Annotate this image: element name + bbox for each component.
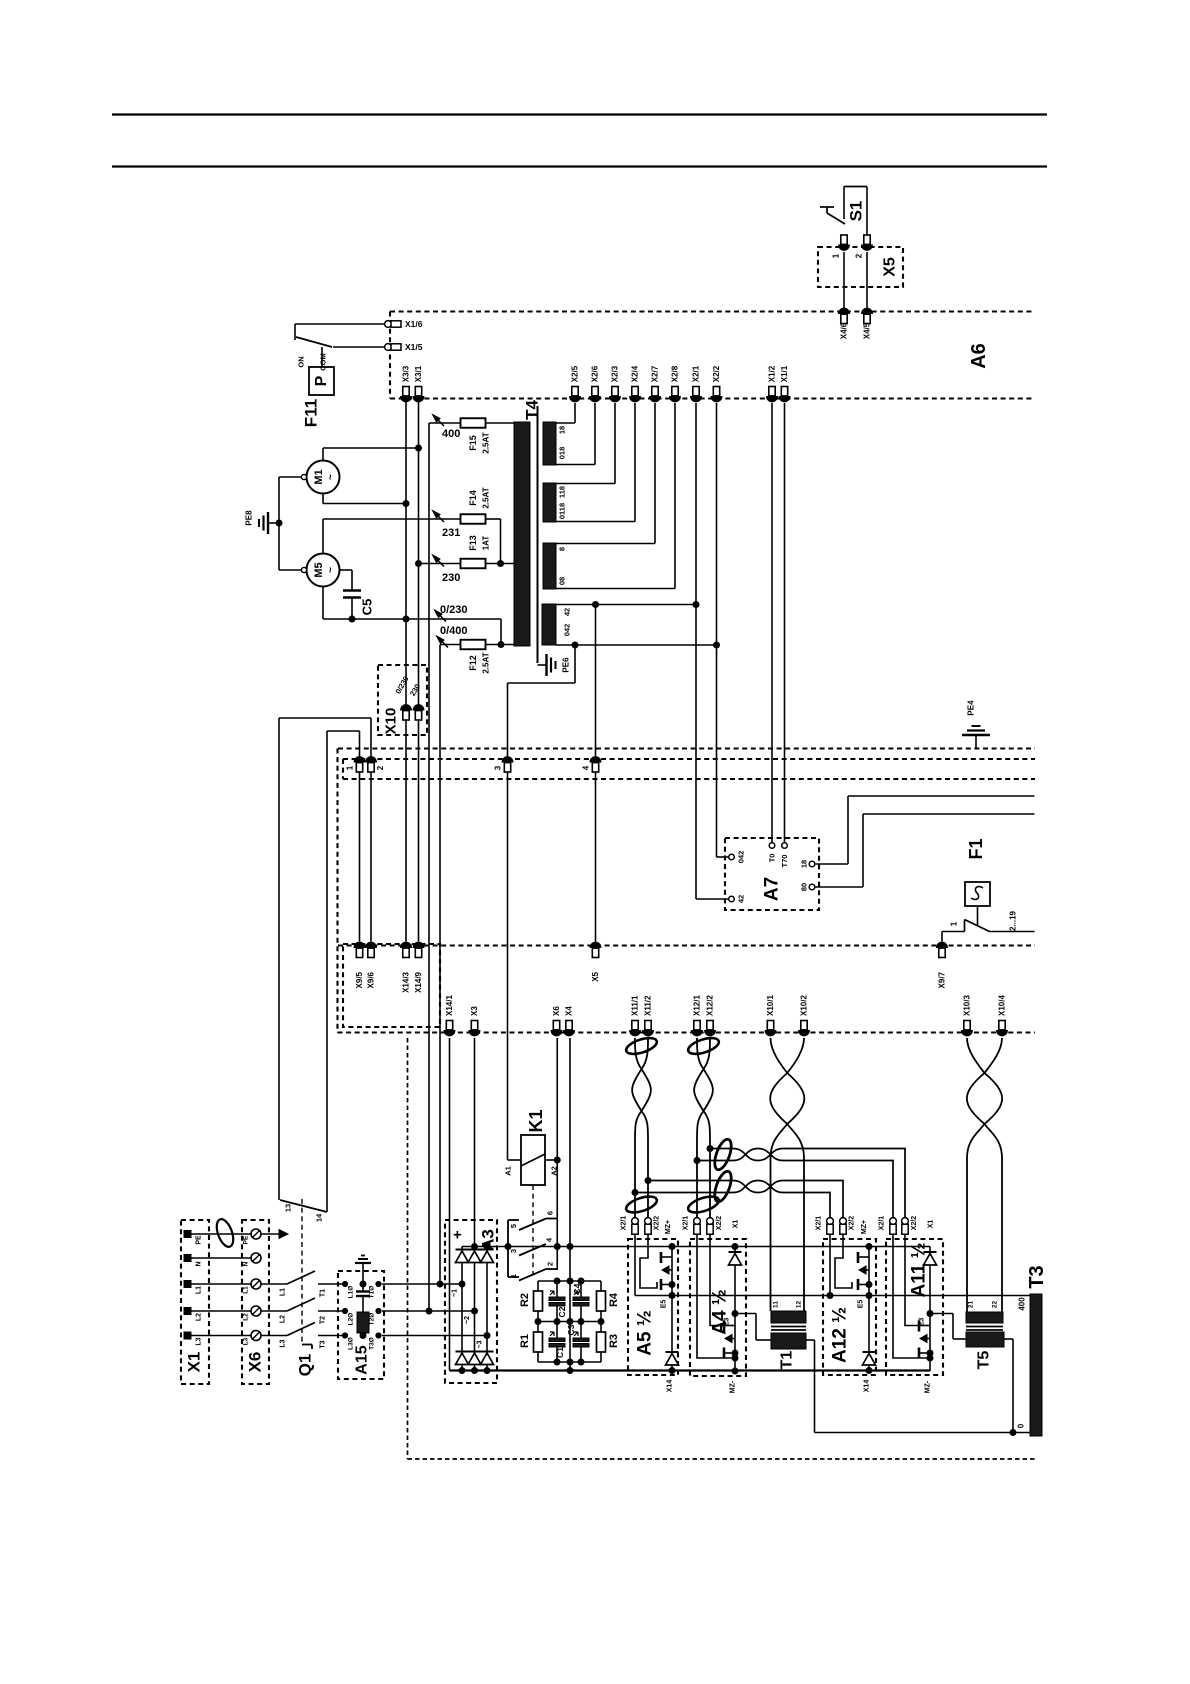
diode A5 bbox=[666, 1296, 679, 1371]
svg-text:2: 2 bbox=[546, 1262, 555, 1266]
wire 042 to pin3 bbox=[508, 645, 576, 759]
wire PE8 rail bbox=[278, 477, 280, 570]
resistor R3 bbox=[597, 1332, 621, 1362]
wire A11 gate lead 2 bbox=[905, 1234, 919, 1326]
module A15 box bbox=[338, 1271, 384, 1379]
terminal X10/4 bbox=[997, 995, 1008, 1036]
wire minus bus bbox=[450, 1369, 931, 1371]
pin A5 X2/1 bbox=[621, 1216, 639, 1235]
wire PE arrow bbox=[261, 1230, 288, 1239]
svg-text:R4: R4 bbox=[608, 1292, 620, 1307]
wire RC bottom bus bbox=[538, 1361, 601, 1363]
connector X6 box bbox=[242, 1220, 269, 1384]
rectifier A3 column ~1 bbox=[452, 1247, 469, 1371]
svg-text:80: 80 bbox=[800, 883, 809, 891]
wire X1/2 to A7 T0 bbox=[771, 403, 773, 843]
node X12 gate tap 2 bbox=[694, 1158, 700, 1164]
diode A4 bbox=[729, 1247, 742, 1314]
ground PE4 bbox=[962, 726, 990, 748]
svg-text:X14/9: X14/9 bbox=[414, 971, 423, 992]
svg-text:2.5AT: 2.5AT bbox=[482, 652, 491, 673]
node minus col3 bbox=[484, 1368, 490, 1374]
svg-text:X2/2: X2/2 bbox=[911, 1216, 918, 1231]
node X6 plus bus bbox=[554, 1244, 560, 1250]
switch F1 blade bbox=[965, 920, 990, 932]
capacitor C4 bbox=[572, 1281, 589, 1322]
svg-text:~2: ~2 bbox=[464, 1316, 471, 1324]
wire X4 drop bbox=[569, 1038, 571, 1281]
svg-text:X9/6: X9/6 bbox=[367, 971, 376, 988]
svg-text:X1/5: X1/5 bbox=[405, 342, 423, 352]
thyristor A12 bbox=[858, 1247, 872, 1296]
svg-text:F13: F13 bbox=[468, 535, 478, 551]
wire T5 out right bbox=[1004, 1339, 1013, 1433]
terminal X6 PE bbox=[243, 1229, 262, 1244]
svg-text:L1Ø: L1Ø bbox=[348, 1286, 355, 1299]
capacitor C2 bbox=[549, 1281, 567, 1322]
svg-text:S1: S1 bbox=[847, 201, 866, 222]
switch Q1 contact T3 bbox=[261, 1323, 345, 1349]
pin X10 1 bbox=[401, 705, 412, 720]
svg-text:X1: X1 bbox=[185, 1352, 204, 1373]
wire X1 L2 bbox=[191, 1310, 251, 1312]
capacitor C1 bbox=[549, 1322, 565, 1363]
svg-text:X14: X14 bbox=[864, 1380, 871, 1393]
node F13 X3/1 junction bbox=[416, 561, 422, 567]
node X3/3 0/230 junction bbox=[403, 616, 409, 622]
wire T1 T5 to T3 0 bbox=[815, 1432, 1031, 1434]
wire M1 left bbox=[279, 476, 302, 478]
terminal X1/5 bbox=[385, 342, 423, 352]
svg-text:400: 400 bbox=[1018, 1297, 1027, 1311]
svg-text:042: 042 bbox=[563, 624, 572, 637]
pin A12 X2/2 bbox=[840, 1216, 856, 1235]
node C5 junction bbox=[349, 616, 355, 622]
terminal X9/5 bbox=[354, 942, 365, 988]
switch Q1 contact T2 bbox=[261, 1298, 345, 1324]
node A4 E3 bbox=[732, 1311, 738, 1317]
wire A4 gate lead 2 bbox=[710, 1234, 724, 1326]
svg-text:A5 ½: A5 ½ bbox=[635, 1310, 656, 1355]
label F13 value bbox=[468, 535, 491, 551]
pin row contact 4 bbox=[582, 757, 601, 772]
svg-text:X6: X6 bbox=[552, 1006, 561, 1016]
wire pin4 to X5 bbox=[595, 772, 597, 942]
svg-text:F14: F14 bbox=[468, 490, 478, 506]
thyristor A5 bbox=[661, 1247, 675, 1296]
wire X3/1 rail upper bbox=[418, 401, 420, 707]
svg-text:T2: T2 bbox=[320, 1316, 327, 1324]
node RC top 570 bbox=[567, 1278, 573, 1284]
svg-text:F12: F12 bbox=[468, 655, 478, 671]
transformer T4 winding 118 bbox=[543, 483, 556, 522]
terminal X9/7 bbox=[937, 942, 948, 988]
svg-text:X3/1: X3/1 bbox=[414, 365, 423, 382]
wire RC mid bus bbox=[538, 1321, 601, 1323]
wire S1 to X4/6 bbox=[843, 252, 845, 309]
pin A7 42 bbox=[729, 895, 746, 903]
svg-text:L3: L3 bbox=[243, 1337, 250, 1345]
wire X1 N bbox=[191, 1257, 251, 1259]
svg-text:K1: K1 bbox=[526, 1109, 546, 1132]
pin A7 T0 bbox=[768, 843, 777, 863]
svg-text:X2/5: X2/5 bbox=[571, 365, 580, 382]
svg-text:X9/5: X9/5 bbox=[355, 971, 364, 988]
svg-text:T5: T5 bbox=[976, 1351, 993, 1370]
svg-text:X1/2: X1/2 bbox=[768, 365, 777, 382]
node X12 gate tap 1 bbox=[707, 1146, 713, 1152]
pin A12 X2/1 bbox=[816, 1216, 834, 1235]
node RC mid 557 bbox=[554, 1319, 560, 1325]
fuse F13 bbox=[419, 555, 515, 568]
wire 0/400 rail bbox=[440, 645, 461, 1285]
svg-text:A6: A6 bbox=[968, 343, 990, 369]
svg-text:PE4: PE4 bbox=[967, 700, 976, 716]
svg-text:A1: A1 bbox=[504, 1166, 513, 1176]
svg-text:A11 ½: A11 ½ bbox=[909, 1243, 930, 1298]
transformer T4 winding 18 bbox=[543, 422, 556, 465]
wire A4 gate lead 1 bbox=[697, 1234, 735, 1358]
svg-text:~: ~ bbox=[326, 567, 337, 573]
module A5 box bbox=[628, 1239, 678, 1375]
enclosure dashed boundary bbox=[408, 1038, 1037, 1459]
fuse F15 bbox=[429, 415, 514, 428]
thyristor A4 bbox=[724, 1314, 738, 1372]
terminal X6 bbox=[551, 1006, 562, 1036]
wire X6 drop bbox=[556, 1038, 558, 1270]
module A3 box bbox=[445, 1220, 497, 1383]
terminal X5 bbox=[590, 942, 601, 982]
wire A11 gate lead 1 bbox=[893, 1234, 930, 1358]
svg-text:X14/3: X14/3 bbox=[402, 971, 411, 992]
terminal X1/2 bbox=[767, 365, 778, 402]
svg-text:C2: C2 bbox=[557, 1306, 567, 1317]
svg-text:MZ-: MZ- bbox=[730, 1380, 737, 1393]
svg-text:T3: T3 bbox=[1026, 1265, 1048, 1288]
svg-text:T1: T1 bbox=[320, 1289, 327, 1297]
svg-text:F1: F1 bbox=[966, 838, 986, 859]
pin row contact 2 bbox=[366, 757, 385, 772]
connector row1 pin box bbox=[343, 944, 440, 1027]
svg-text:PE: PE bbox=[243, 1235, 250, 1244]
wire 0/230 drop bbox=[500, 619, 502, 645]
node A12 cathode bus bbox=[827, 1293, 833, 1299]
terminal X6 L3 bbox=[243, 1331, 262, 1346]
wire X2/1 to A7 42 bbox=[696, 403, 729, 899]
node 42 tap junction 2 bbox=[693, 602, 699, 608]
terminal X11/1 bbox=[630, 995, 641, 1036]
node M1 top junction bbox=[416, 445, 422, 451]
pin A4 X2/2 bbox=[707, 1216, 723, 1235]
terminal X10/3 bbox=[962, 995, 973, 1036]
pin A11 X2/2 bbox=[902, 1216, 918, 1235]
wire dashed row1 bbox=[338, 944, 1035, 946]
svg-text:08: 08 bbox=[558, 577, 567, 585]
svg-text:3: 3 bbox=[494, 765, 503, 770]
node 42 tap junction 1 bbox=[593, 602, 599, 608]
svg-text:2...19: 2...19 bbox=[1009, 910, 1018, 931]
switch S1 bbox=[820, 187, 867, 236]
wire X1 L3 bbox=[191, 1335, 251, 1337]
node A4 gate junction bbox=[732, 1355, 738, 1361]
svg-text:L1: L1 bbox=[280, 1288, 287, 1296]
node RC mid left bbox=[535, 1319, 541, 1325]
svg-text:X5: X5 bbox=[882, 257, 899, 277]
terminal S1 pin 2 bbox=[855, 235, 873, 258]
svg-text:C5: C5 bbox=[360, 599, 375, 616]
transformer T4 core bbox=[537, 406, 539, 663]
terminal X14/1 bbox=[444, 995, 455, 1036]
wire A5 cathode lead bbox=[634, 1234, 636, 1296]
node A5 minus bus bbox=[669, 1368, 675, 1374]
transformer T4 primary winding bbox=[514, 422, 530, 646]
terminal X1 L1 bbox=[184, 1281, 203, 1295]
node minus col2 bbox=[472, 1368, 478, 1374]
svg-text:T3Ø: T3Ø bbox=[369, 1337, 376, 1350]
svg-text:N: N bbox=[243, 1261, 250, 1266]
svg-text:E5: E5 bbox=[661, 1300, 668, 1309]
svg-text:0/400: 0/400 bbox=[440, 625, 468, 637]
svg-text:X2/2: X2/2 bbox=[849, 1216, 856, 1231]
svg-text:T70: T70 bbox=[780, 855, 789, 868]
node K1 A2 junction bbox=[554, 1157, 560, 1163]
terminal X3/3 bbox=[401, 365, 412, 402]
wire X2/4 to T4 bbox=[556, 403, 635, 522]
pin A15 1311 bbox=[342, 1308, 381, 1325]
svg-text:0: 0 bbox=[1017, 1423, 1026, 1428]
node RC minus bus bbox=[567, 1368, 573, 1374]
svg-text:X2/1: X2/1 bbox=[683, 1216, 690, 1231]
svg-text:PE: PE bbox=[196, 1235, 203, 1245]
node 0/230 F12 junction bbox=[498, 642, 504, 648]
connector X5 bbox=[818, 247, 903, 287]
wire X2/5 to T4 bbox=[556, 403, 575, 423]
node A4 anode bus bbox=[732, 1244, 738, 1250]
wire T1 out right bbox=[806, 1340, 815, 1433]
svg-text:21: 21 bbox=[968, 1301, 975, 1309]
wire RC center rail bbox=[569, 1281, 571, 1371]
svg-text:1: 1 bbox=[509, 1274, 518, 1278]
terminal X1 PE bbox=[184, 1231, 203, 1245]
node A12 minus bus bbox=[866, 1368, 872, 1374]
svg-text:X4/6: X4/6 bbox=[840, 322, 849, 339]
node A5 E5 bbox=[669, 1293, 675, 1299]
pin row contact 1 bbox=[346, 757, 365, 772]
node A12 E5 bbox=[866, 1293, 872, 1299]
svg-text:ON: ON bbox=[297, 356, 306, 367]
svg-text:X2/4: X2/4 bbox=[631, 365, 640, 382]
pin A4 X2/1 bbox=[683, 1216, 701, 1235]
terminal X10/2 bbox=[799, 995, 810, 1036]
wire T5 out left bbox=[930, 1314, 966, 1340]
inductor A15 bbox=[357, 1312, 369, 1333]
svg-text:L3Ø: L3Ø bbox=[348, 1337, 355, 1350]
terminal X1 L2 bbox=[184, 1308, 203, 1322]
terminal X9/6 bbox=[366, 942, 377, 988]
svg-text:X14: X14 bbox=[667, 1380, 674, 1393]
svg-text:X6: X6 bbox=[246, 1352, 265, 1373]
svg-text:~1: ~1 bbox=[452, 1289, 459, 1297]
wire Q1 aux 13 riser bbox=[279, 718, 371, 1200]
svg-text:231: 231 bbox=[442, 527, 460, 539]
pin A7 042 bbox=[729, 851, 746, 864]
pin A7 18 bbox=[800, 860, 815, 868]
wire dashed row2 bbox=[338, 1031, 1036, 1033]
switch Q1 aux blade bbox=[280, 1200, 327, 1212]
svg-text:6: 6 bbox=[546, 1211, 555, 1215]
svg-text:MZ+: MZ+ bbox=[861, 1220, 868, 1234]
wire M1 bottom to X3/3 bbox=[323, 494, 406, 504]
svg-text:2: 2 bbox=[376, 765, 385, 770]
terminal X6 L1 bbox=[243, 1279, 262, 1294]
connector X1 box bbox=[181, 1220, 209, 1384]
wire Q1 aux 14 riser bbox=[327, 731, 360, 1212]
wire dashed bus 1 bbox=[338, 747, 1035, 749]
svg-text:2: 2 bbox=[855, 253, 864, 258]
wire A4 E3 to T1 bbox=[735, 1314, 771, 1341]
terminal X14/3 bbox=[401, 942, 412, 993]
wire X1/5 to F11 COM bbox=[333, 346, 385, 348]
svg-text:X12/2: X12/2 bbox=[706, 995, 715, 1016]
node X11 gate tap 1 bbox=[645, 1178, 651, 1184]
twisted pair X10/1 X10/2 bbox=[771, 1038, 805, 1311]
twisted pair X10/3 X10/4 bbox=[967, 1038, 1002, 1312]
motor M1 bbox=[301, 461, 339, 494]
svg-text:8: 8 bbox=[558, 547, 567, 551]
wire pin3 to K1 A1 bbox=[507, 772, 509, 1160]
svg-text:PE6: PE6 bbox=[562, 657, 571, 673]
ground PE8 bbox=[259, 512, 279, 534]
wire header rule 2 bbox=[112, 165, 1047, 167]
svg-text:C3: C3 bbox=[566, 1324, 576, 1335]
svg-text:L2: L2 bbox=[243, 1313, 250, 1321]
enclosure dashed left edge bbox=[336, 749, 338, 1033]
resistor R2 bbox=[519, 1281, 543, 1332]
svg-text:F15: F15 bbox=[468, 435, 478, 451]
wire X3/1 rail lower bbox=[418, 720, 420, 942]
svg-text:4: 4 bbox=[582, 765, 591, 770]
svg-text:X9/7: X9/7 bbox=[938, 971, 947, 988]
wire X1 PE bbox=[191, 1233, 251, 1235]
pin A11 X2/1 bbox=[879, 1216, 897, 1235]
pin row contact 3 bbox=[494, 757, 513, 772]
wire A7 18 output bbox=[815, 796, 1035, 864]
svg-text:X10/1: X10/1 bbox=[766, 995, 775, 1016]
node A4 minus bus bbox=[732, 1368, 738, 1374]
svg-text:1: 1 bbox=[950, 921, 959, 926]
wire M5 bottom 0/230 bbox=[323, 587, 501, 620]
wire A15 to L3 bbox=[362, 1333, 364, 1336]
fuse F14 bbox=[323, 511, 501, 564]
ferrite ring PE bbox=[213, 1217, 236, 1249]
thermostat F1 bbox=[965, 882, 990, 925]
wire 400 rail bbox=[428, 423, 430, 1311]
svg-text:13: 13 bbox=[284, 1204, 293, 1212]
svg-text:T4: T4 bbox=[523, 400, 542, 420]
wire K1 A1 bbox=[508, 1159, 522, 1161]
capacitor C3 bbox=[566, 1322, 589, 1363]
terminal X11/2 bbox=[643, 995, 654, 1036]
node PE8 junction bbox=[276, 520, 282, 526]
svg-text:PE8: PE8 bbox=[245, 510, 254, 526]
node 042 tap junction 2 bbox=[714, 642, 720, 648]
wire M5 left bbox=[279, 569, 302, 571]
wire F1 output bbox=[990, 931, 1035, 933]
node RC top 557 bbox=[554, 1278, 560, 1284]
svg-text:A12 ½: A12 ½ bbox=[830, 1307, 851, 1363]
node A15 L1 junction bbox=[360, 1281, 366, 1287]
wire X1/6 to F11 ON bbox=[295, 324, 385, 340]
wire X2/7 to T4 bbox=[556, 403, 655, 544]
pin A15 1284 bbox=[342, 1281, 381, 1298]
module A11 box bbox=[886, 1239, 943, 1375]
ground PE6 bbox=[538, 654, 556, 676]
transformer T4 winding 42 bbox=[542, 604, 556, 645]
svg-text:12: 12 bbox=[796, 1301, 803, 1309]
svg-text:R2: R2 bbox=[519, 1293, 531, 1307]
svg-text:X2/1: X2/1 bbox=[692, 365, 701, 382]
svg-text:2.5AT: 2.5AT bbox=[482, 487, 491, 508]
svg-text:MZ-: MZ- bbox=[925, 1380, 932, 1393]
switch Q1 mechanism bbox=[302, 1199, 312, 1349]
svg-text:42: 42 bbox=[563, 608, 572, 616]
wire A7 80 output bbox=[815, 814, 1035, 887]
svg-text:R1: R1 bbox=[519, 1334, 531, 1348]
pressure switch F11 bbox=[309, 347, 334, 395]
node A12 anode bus bbox=[866, 1244, 872, 1250]
wire S1 to X4/5 bbox=[866, 252, 868, 309]
transformer T4 winding 8 bbox=[543, 543, 556, 589]
node T5 out junction bbox=[1010, 1430, 1016, 1436]
terminal X12/1 bbox=[692, 995, 703, 1036]
svg-text:230: 230 bbox=[442, 572, 460, 584]
svg-text:X4/5: X4/5 bbox=[863, 322, 872, 339]
module A12 box bbox=[823, 1239, 876, 1375]
svg-text:L1: L1 bbox=[243, 1286, 250, 1294]
connector pin row box bbox=[343, 759, 1035, 779]
wire M1 top to X3/1 bbox=[323, 448, 419, 461]
svg-text:X2/6: X2/6 bbox=[591, 365, 600, 382]
svg-text:X2/1: X2/1 bbox=[879, 1216, 886, 1231]
svg-text:L2Ø: L2Ø bbox=[348, 1313, 355, 1326]
resistor R1 bbox=[519, 1332, 543, 1362]
svg-text:+: + bbox=[453, 1227, 462, 1244]
svg-text:T3: T3 bbox=[320, 1340, 327, 1348]
node RC bottom 557 bbox=[554, 1359, 560, 1365]
rectifier A3 column ~2 bbox=[464, 1247, 481, 1371]
svg-text:018: 018 bbox=[558, 447, 567, 460]
contact K1 blade 1-2 bbox=[519, 1269, 546, 1281]
svg-text:X2/7: X2/7 bbox=[651, 365, 660, 382]
svg-text:14: 14 bbox=[315, 1213, 324, 1222]
terminal X2/2 bbox=[711, 365, 722, 402]
wire X3/3 rail upper bbox=[405, 401, 407, 707]
diode A11 bbox=[924, 1247, 937, 1314]
svg-text:~3: ~3 bbox=[477, 1340, 484, 1348]
svg-text:22: 22 bbox=[992, 1301, 999, 1309]
pin A5 X2/2 bbox=[645, 1216, 661, 1235]
node A3 plus col3 bbox=[484, 1244, 490, 1250]
node X11 gate tap 2 bbox=[632, 1190, 638, 1196]
node RC bottom 581 bbox=[578, 1359, 584, 1365]
thyristor A11 bbox=[919, 1314, 933, 1372]
terminal X1/1 bbox=[779, 365, 790, 402]
svg-text:T1: T1 bbox=[779, 1351, 796, 1370]
wire X3 drop bbox=[474, 1038, 476, 1247]
node RC mid right bbox=[598, 1319, 604, 1325]
wire A15 T3 out bbox=[382, 1335, 487, 1337]
wire A12 cathode lead bbox=[829, 1234, 831, 1296]
